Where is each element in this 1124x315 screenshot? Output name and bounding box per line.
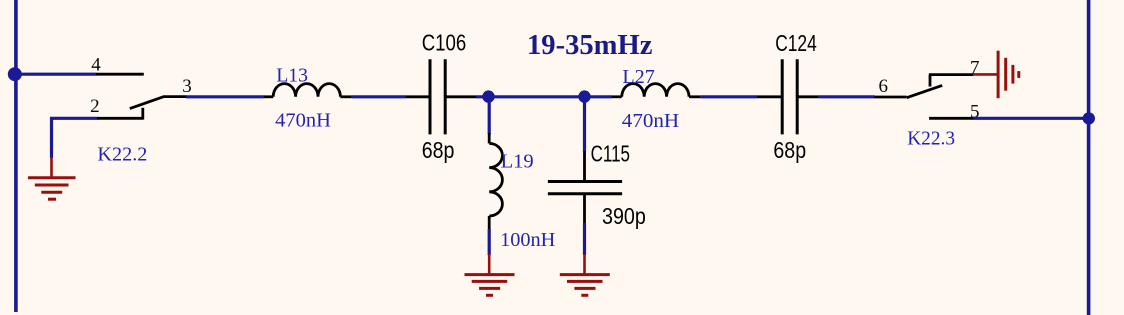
wire C115 to ground (583, 223, 586, 255)
svg-text:K22.2: K22.2 (97, 144, 147, 166)
wire L19 to ground (488, 229, 491, 255)
wire node1 down to L19 (488, 97, 491, 134)
wire pin2 to ground (52, 118, 98, 158)
wire C124 to pin6 (819, 95, 875, 98)
relay switch K22.3 (874, 75, 973, 119)
node junction 2 (578, 90, 590, 102)
inductor L13 (264, 84, 352, 97)
svg-text:68p: 68p (773, 137, 806, 163)
wire pin5 to right bus (973, 117, 1089, 120)
svg-text:100nH: 100nH (500, 229, 555, 251)
inductor L19 (489, 133, 502, 229)
node bus-left junction (8, 67, 22, 81)
svg-text:390p: 390p (602, 203, 646, 229)
ground right of pin7 (rotated) (973, 51, 1019, 98)
left bus wire (14, 0, 18, 312)
wire node2 down to C115 (583, 97, 586, 152)
svg-text:C106: C106 (422, 30, 467, 56)
svg-text:C115: C115 (591, 141, 630, 167)
svg-text:68p: 68p (422, 137, 455, 163)
ground under L19 (465, 254, 515, 295)
svg-text:3: 3 (182, 76, 192, 97)
svg-text:19-35mHz: 19-35mHz (527, 29, 653, 61)
wire pin4 to bus (16, 73, 97, 76)
svg-text:6: 6 (879, 76, 889, 97)
ground under K22.2 (28, 157, 76, 199)
svg-text:L19: L19 (501, 151, 534, 173)
ground under C115 (560, 254, 610, 295)
capacitor C115 (548, 151, 622, 223)
node junction 1 (482, 90, 494, 102)
right bus wire (1087, 0, 1091, 315)
svg-text:2: 2 (90, 96, 100, 117)
wire L27 to C124 (701, 95, 758, 98)
svg-text:470nH: 470nH (275, 109, 331, 131)
wire pin3 to L13 (186, 95, 265, 98)
svg-text:4: 4 (91, 54, 101, 75)
wire node2 to L27 (585, 95, 613, 98)
relay switch K22.2 (96, 74, 186, 119)
inductor L27 (612, 84, 701, 97)
wire C106 to node1 to node2 (476, 95, 585, 98)
svg-text:K22.3: K22.3 (907, 127, 955, 149)
svg-text:L13: L13 (276, 64, 308, 86)
capacitor C106 (406, 59, 477, 134)
svg-text:C124: C124 (775, 30, 817, 56)
svg-text:470nH: 470nH (622, 110, 679, 132)
capacitor C124 (757, 59, 818, 134)
node bus-right junction (1083, 112, 1095, 124)
wire L13 to C106 (352, 95, 406, 98)
svg-text:L27: L27 (622, 66, 654, 88)
